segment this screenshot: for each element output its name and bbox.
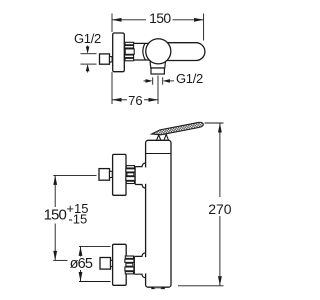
top view: fitting nub bbox=[110, 57, 113, 62]
G1/2 outlet dim: left tick bbox=[152, 77, 154, 84]
svg-text:G1/2: G1/2 bbox=[176, 71, 203, 86]
front view: bottom hose outlet bbox=[151, 286, 165, 289]
front view lower: fitting nub bbox=[111, 260, 114, 266]
dimension 150+15-15: vertical lower segment bbox=[54, 224, 56, 261]
top view: cartridge circle bbox=[146, 39, 171, 64]
dimension 150 top: extension line right bbox=[203, 14, 205, 41]
top view: outlet centerline down bbox=[157, 76, 159, 105]
top view: outlet upper block bbox=[150, 61, 165, 68]
G1/2 top-left: lower extension line bbox=[81, 63, 97, 65]
front view upper: fitting nub bbox=[110, 171, 113, 177]
dimension 76: right arrow bbox=[149, 98, 159, 102]
dimension 150+15-15: bottom extension line bbox=[53, 259, 67, 261]
front view: lever paddle (hatched) bbox=[151, 122, 204, 137]
dimension 150 top: line left segment bbox=[112, 19, 146, 21]
dimension diam 65: lower arrow segment bbox=[80, 270, 82, 282]
front view upper: connection stub bbox=[144, 167, 147, 183]
svg-text:ø65: ø65 bbox=[70, 256, 93, 272]
top view: outlet lower block bbox=[151, 68, 164, 74]
G1/2 top-left: upper extension line bbox=[81, 53, 97, 55]
front view: lever hub cross bbox=[156, 134, 168, 140]
dimension 270: top extension line bbox=[205, 122, 224, 124]
dimension 76: line left segment bbox=[112, 99, 127, 101]
G1/2 outlet dim: left arrow bbox=[144, 80, 152, 82]
G1/2 outlet dim: right tick bbox=[162, 77, 164, 84]
front view upper: union nut (banded) bbox=[126, 166, 135, 184]
dimension 76: line right segment bbox=[144, 99, 158, 101]
dimension 150 top: line right segment bbox=[173, 19, 204, 21]
dimension 150 top: extension line left bbox=[111, 14, 113, 33]
top view: neck between nut and circle bbox=[134, 43, 150, 60]
svg-text:150: 150 bbox=[149, 10, 171, 26]
dimension 270: vertical line upper segment bbox=[219, 123, 221, 197]
dimension diam 65: top extension line bbox=[79, 245, 111, 247]
G1/2 top-left: up arrow bbox=[87, 66, 89, 73]
dimension 270: bottom arrow bbox=[218, 276, 222, 286]
top view: wall flange bbox=[113, 33, 125, 72]
front view lower: connection stub bbox=[144, 257, 147, 273]
front view lower: escutcheon bbox=[113, 244, 127, 285]
dimension 150 top: right arrow bbox=[194, 18, 204, 22]
top view: wall extension line below flange bbox=[111, 72, 113, 104]
dimension 150 top: left arrow bbox=[112, 18, 122, 22]
dimension diam 65: bottom extension line bbox=[79, 281, 111, 283]
dimension 150+15-15: top extension line bbox=[53, 174, 96, 176]
top view: ring arc behind circle bbox=[143, 43, 146, 60]
front view: cap joint line bbox=[146, 153, 171, 155]
front view lower: union nut (banded) bbox=[125, 256, 134, 274]
front view upper: escutcheon bbox=[113, 154, 126, 195]
svg-text:150: 150 bbox=[44, 206, 67, 223]
dimension 270: top arrow bbox=[218, 123, 222, 133]
front view: body column bbox=[146, 140, 171, 287]
dimension 76: left arrow bbox=[112, 98, 122, 102]
dimension 270: vertical line lower segment bbox=[219, 216, 221, 286]
svg-text:-15: -15 bbox=[68, 212, 87, 227]
svg-text:76: 76 bbox=[128, 93, 142, 108]
G1/2 top-left: down arrow bbox=[87, 46, 89, 53]
dimension diam 65: upper arrow segment bbox=[80, 246, 82, 256]
front view upper: inlet square fitting bbox=[99, 169, 110, 181]
front view lower: inlet square fitting bbox=[100, 258, 111, 270]
svg-text:270: 270 bbox=[208, 201, 232, 217]
dimension 150+15-15: top arrow bbox=[53, 175, 57, 185]
top view: lever handle bar bbox=[158, 43, 205, 61]
dimension 150+15-15: vertical upper segment bbox=[54, 175, 56, 207]
top view: inlet square fitting bbox=[100, 54, 110, 64]
dimension 150+15-15: bottom arrow bbox=[53, 251, 57, 261]
top view: union nut (banded) bbox=[125, 42, 135, 61]
dimension 270: bottom extension line bbox=[178, 285, 224, 287]
svg-text:G1/2: G1/2 bbox=[74, 31, 101, 46]
G1/2 outlet dim: right arrow with leader bbox=[165, 80, 175, 82]
